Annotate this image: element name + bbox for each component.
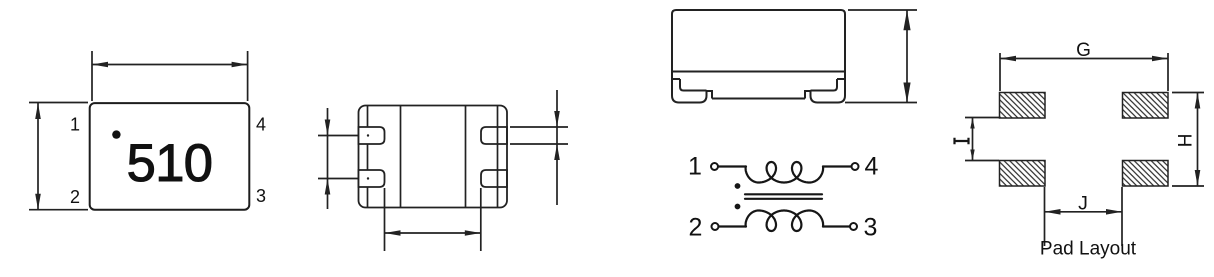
dimension G line	[1000, 58, 1168, 60]
svg-text:Pad Layout: Pad Layout	[1040, 239, 1137, 260]
svg-text:510: 510	[127, 134, 213, 193]
component body bottom view	[359, 106, 508, 208]
svg-text:4: 4	[865, 153, 879, 181]
dimension label I (serifed, rotated)	[955, 138, 969, 144]
phase dot primary	[735, 183, 741, 189]
component body top view	[90, 103, 250, 210]
terminal pad 3 (right bottom)	[481, 170, 507, 187]
wire pin1 to winding	[718, 165, 746, 167]
svg-text:3: 3	[864, 214, 878, 242]
svg-text:H: H	[1176, 134, 1197, 148]
land pad bottom-left	[1000, 161, 1046, 187]
terminal edge line left inner	[400, 106, 402, 207]
dimension H extension lines	[1172, 93, 1204, 187]
pad gap dimension line	[385, 232, 481, 234]
height dimension extension lines	[29, 103, 88, 210]
left terminal clip outer	[672, 79, 712, 103]
svg-text:2: 2	[689, 214, 703, 242]
terminal pad 2 (left bottom)	[359, 170, 385, 187]
terminal edge line left outer	[367, 106, 369, 207]
svg-text:1: 1	[688, 153, 702, 181]
terminal edge line right inner	[465, 106, 467, 207]
right terminal clip inner	[811, 79, 838, 91]
svg-text:4: 4	[256, 115, 266, 135]
dimension G extension lines	[1000, 53, 1168, 91]
core line 1	[745, 193, 822, 195]
dimension H line	[1197, 93, 1199, 187]
phase dot secondary	[735, 204, 741, 210]
svg-text:G: G	[1076, 40, 1091, 61]
terminal pad 1 (left top)	[359, 127, 385, 144]
pad 1 center mark	[367, 134, 369, 136]
schematic pin 1 terminal	[711, 163, 718, 170]
primary winding coil	[746, 162, 824, 183]
schematic pin 4 terminal	[852, 163, 859, 170]
height dimension extension lines	[845, 10, 917, 103]
pad width extension lines	[510, 127, 568, 144]
right terminal clip top edge	[837, 78, 845, 80]
pin-1 index dot	[112, 130, 120, 138]
dimension J extension lines	[1045, 187, 1123, 246]
terminal edge line right outer	[497, 106, 499, 207]
secondary winding coil	[746, 211, 824, 232]
height dimension line	[906, 10, 908, 103]
pad pitch dimension line	[327, 108, 329, 209]
svg-text:2: 2	[70, 187, 80, 207]
pad pitch extension lines	[318, 136, 358, 179]
width dimension extension lines	[92, 51, 248, 101]
wire winding to pin3	[823, 225, 850, 227]
component body side view outline	[672, 10, 845, 79]
svg-text:1: 1	[70, 115, 80, 135]
pad gap extension lines	[385, 188, 481, 251]
body base line	[672, 71, 845, 73]
schematic pin 2 terminal	[712, 223, 719, 230]
bottom recess line	[712, 98, 805, 100]
height dimension line	[37, 103, 39, 210]
dimension I line	[972, 118, 974, 161]
left terminal clip top edge	[672, 78, 680, 80]
wire winding to pin4	[823, 165, 852, 167]
terminal pad 4 (right top)	[481, 127, 507, 144]
schematic pin 3 terminal	[850, 223, 857, 230]
core line 2	[745, 198, 822, 200]
land pad top-right	[1123, 93, 1169, 119]
wire pin2 to winding	[719, 225, 747, 227]
svg-text:3: 3	[256, 186, 266, 206]
pad 2 center mark	[367, 177, 369, 179]
left terminal clip inner	[680, 79, 707, 91]
svg-text:J: J	[1078, 193, 1088, 215]
dimension I extension lines	[965, 118, 999, 161]
dimension J line	[1045, 211, 1123, 213]
right terminal clip outer	[805, 79, 845, 103]
land pad top-left	[1000, 93, 1046, 119]
width dimension line	[92, 64, 248, 66]
pad width dimension line	[556, 90, 558, 205]
land pad bottom-right	[1123, 161, 1169, 187]
